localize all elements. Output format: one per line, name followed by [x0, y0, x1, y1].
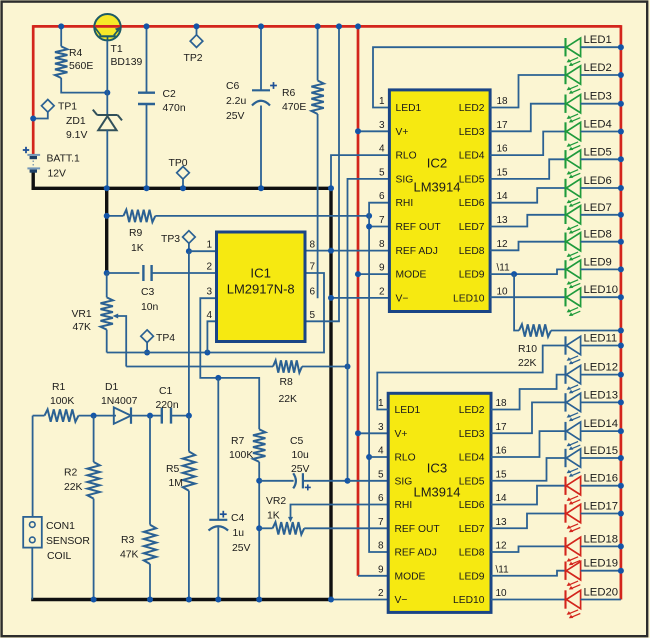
node LED11 bus junction [618, 343, 624, 349]
node LED12 bus junction [618, 372, 624, 378]
node pin8 ground junction [328, 248, 334, 254]
svg-text:REF ADJ: REF ADJ [395, 548, 437, 559]
wire IC2 RLO to ground [331, 155, 389, 188]
svg-text:R10: R10 [518, 344, 537, 355]
node R2 ground junction [91, 597, 97, 603]
svg-text:RHI: RHI [395, 500, 413, 511]
node C6 top junction [258, 23, 264, 29]
svg-text:1N4007: 1N4007 [101, 396, 138, 407]
svg-text:3: 3 [378, 422, 384, 433]
node LED6 bus junction [618, 185, 624, 191]
wire IC3 MODE stub [358, 575, 388, 577]
svg-text:R7: R7 [231, 436, 245, 447]
wire IC3 V+ stub [358, 432, 388, 434]
node ZD1 ground junction [104, 185, 110, 191]
svg-text:LED19: LED19 [584, 558, 619, 570]
node R4-ZD1 junction [104, 90, 110, 96]
svg-text:LED9: LED9 [584, 256, 612, 268]
resistor R10 [514, 274, 621, 337]
svg-text:MODE: MODE [395, 571, 426, 582]
resistor R8 [126, 360, 347, 372]
svg-text:LED8: LED8 [459, 246, 485, 257]
resistor R5 [183, 416, 195, 600]
svg-text:LED2: LED2 [584, 62, 612, 74]
svg-text:7: 7 [310, 262, 316, 273]
svg-text:LED13: LED13 [584, 389, 619, 401]
svg-text:IC3: IC3 [427, 461, 448, 476]
node LED3 bus junction [618, 101, 624, 107]
svg-text:LED5: LED5 [459, 174, 485, 185]
node pin5 bus junction [336, 23, 342, 29]
node LED15 bus junction [618, 455, 624, 461]
LED18 [566, 533, 621, 565]
svg-text:LED10: LED10 [453, 595, 485, 606]
svg-text:17: 17 [496, 422, 508, 433]
node IC2 V- junction [328, 295, 334, 301]
svg-text:9: 9 [379, 263, 385, 274]
resistor R1 [45, 409, 79, 421]
svg-text:LED16: LED16 [584, 473, 619, 485]
svg-text:\11: \11 [497, 263, 511, 274]
resistor R4 [55, 26, 106, 92]
svg-text:R1: R1 [52, 382, 66, 393]
svg-text:470E: 470E [282, 102, 306, 113]
node TP4 junction [144, 350, 150, 356]
svg-text:12: 12 [497, 239, 509, 250]
node LED9 bus junction [618, 266, 624, 272]
wire VR1 bottom to IC1 pin7 [107, 273, 324, 353]
svg-text:6: 6 [379, 191, 385, 202]
svg-text:LM3914: LM3914 [414, 180, 461, 195]
svg-text:LED6: LED6 [459, 198, 485, 209]
svg-text:LED6: LED6 [584, 175, 612, 187]
node LED19 bus junction [618, 568, 624, 574]
wire IC1 pin4 [207, 321, 216, 352]
wire IC3 SIG stub [348, 480, 389, 482]
svg-text:25V: 25V [291, 464, 310, 475]
LED5 [566, 146, 621, 178]
node LED4 bus junction [618, 129, 624, 135]
testpoint TP1 [34, 100, 54, 119]
svg-text:BD139: BD139 [111, 57, 143, 68]
svg-text:LED10: LED10 [453, 293, 485, 304]
svg-text:18: 18 [497, 96, 509, 107]
svg-text:22K: 22K [518, 358, 537, 369]
svg-text:LED8: LED8 [459, 548, 485, 559]
svg-text:100K: 100K [50, 396, 74, 407]
svg-text:REF OUT: REF OUT [395, 524, 441, 535]
svg-text:MODE: MODE [396, 270, 427, 281]
svg-text:LED7: LED7 [459, 524, 485, 535]
svg-text:R9: R9 [129, 228, 143, 239]
node ground corner junction [328, 185, 334, 191]
LED1 [566, 34, 621, 66]
svg-text:V+: V+ [396, 127, 409, 138]
svg-text:LED4: LED4 [459, 453, 485, 464]
resistor R6 [311, 26, 323, 298]
node LED9 R10 junction [511, 271, 517, 277]
node TP0 junction [180, 185, 186, 191]
wire IC1 pin3 to R7 [200, 298, 259, 429]
testpoint TP2 [190, 26, 203, 47]
svg-text:1K: 1K [131, 243, 144, 254]
svg-text:LED9: LED9 [459, 270, 485, 281]
svg-text:VR1: VR1 [72, 309, 92, 320]
svg-text:C6: C6 [226, 81, 240, 92]
LED11 [566, 333, 621, 365]
svg-text:R6: R6 [282, 88, 296, 99]
svg-text:D1: D1 [105, 382, 119, 393]
IC U2 LM3914 [389, 90, 490, 312]
node R2 junction [91, 413, 97, 419]
svg-text:25V: 25V [232, 543, 251, 554]
wire IC2 V- stub [331, 297, 389, 299]
svg-text:10: 10 [497, 286, 509, 297]
svg-text:220n: 220n [156, 400, 179, 411]
wire D1 to C1 [131, 415, 162, 417]
svg-text:LED7: LED7 [459, 222, 485, 233]
node LED18 bus junction [618, 543, 624, 549]
wire IC3 pin1 to LED11 [377, 346, 565, 410]
svg-text:9.1V: 9.1V [66, 130, 87, 141]
svg-text:1: 1 [206, 240, 212, 251]
svg-text:SIG: SIG [395, 476, 413, 487]
wire sensor line [33, 415, 45, 417]
svg-text:REF OUT: REF OUT [396, 222, 442, 233]
svg-text:COIL: COIL [47, 551, 71, 562]
node LED16 bus junction [618, 483, 624, 489]
node LED2 bus junction [618, 72, 624, 78]
node LED14 bus junction [618, 428, 624, 434]
node R7 ground junction [256, 597, 262, 603]
node IC2 V+ junction [355, 128, 361, 134]
node REF OUT junction [366, 224, 372, 230]
svg-text:LED3: LED3 [459, 127, 485, 138]
LED12 [566, 362, 621, 394]
svg-text:12V: 12V [48, 169, 67, 180]
capacitor C4 [209, 378, 229, 600]
node TP2 junction [194, 23, 200, 29]
wire IC2 SIG down to IC3 SIG [348, 179, 390, 481]
capacitor C5 [259, 473, 347, 490]
wire left to CON1 [32, 416, 34, 517]
svg-text:RLO: RLO [395, 453, 416, 464]
svg-text:5: 5 [310, 310, 316, 321]
LED16 [566, 473, 621, 505]
svg-text:5: 5 [378, 469, 384, 480]
svg-text:10: 10 [496, 588, 508, 599]
svg-text:LED1: LED1 [396, 103, 422, 114]
svg-text:RHI: RHI [396, 198, 414, 209]
testpoint TP3 [183, 231, 196, 252]
svg-text:1M: 1M [169, 478, 183, 489]
svg-text:R5: R5 [166, 464, 180, 475]
LED8 [566, 229, 621, 261]
wire +12V mid vertical to V+/MODE [357, 26, 360, 575]
svg-text:C1: C1 [159, 386, 173, 397]
battery BATT.1 [23, 147, 40, 171]
wiper VR1 [113, 314, 127, 367]
svg-text:C2: C2 [163, 89, 177, 100]
svg-text:LED3: LED3 [584, 91, 612, 103]
capacitor C6 [252, 26, 277, 188]
svg-text:6: 6 [378, 493, 384, 504]
LED2 [566, 62, 621, 94]
svg-text:15: 15 [496, 469, 508, 480]
svg-text:4: 4 [206, 310, 212, 321]
svg-text:BATT.1: BATT.1 [47, 154, 81, 165]
svg-text:17: 17 [497, 120, 509, 131]
connector CON1 [23, 517, 42, 548]
wire IC1 pin1 [189, 250, 217, 252]
svg-text:C5: C5 [290, 436, 304, 447]
svg-text:47K: 47K [73, 322, 92, 333]
node C2 ground junction [144, 185, 150, 191]
wire ground from battery [33, 171, 331, 600]
svg-text:LED20: LED20 [584, 587, 619, 599]
wires IC2 outputs to LEDs [490, 75, 565, 297]
node TP3 junction [186, 248, 192, 254]
capacitor C2 [138, 26, 155, 188]
wire C1 to node [171, 415, 189, 417]
svg-text:10u: 10u [292, 450, 310, 461]
capacitor C1 [161, 408, 163, 424]
LED19 [566, 558, 621, 590]
svg-text:LM3914: LM3914 [414, 485, 461, 500]
svg-text:LED3: LED3 [459, 429, 485, 440]
svg-text:1: 1 [378, 398, 384, 409]
node pin4 junction [204, 350, 210, 356]
node C1 right junction [186, 413, 192, 419]
svg-text:LED6: LED6 [459, 500, 485, 511]
svg-text:LED5: LED5 [584, 146, 612, 158]
svg-text:2: 2 [379, 286, 385, 297]
svg-text:22K: 22K [279, 394, 298, 405]
svg-text:560E: 560E [69, 61, 93, 72]
svg-text:LED15: LED15 [584, 445, 619, 457]
resistor R7 [253, 429, 265, 599]
svg-text:LED1: LED1 [584, 34, 612, 46]
svg-text:IC1: IC1 [250, 266, 271, 281]
svg-text:2: 2 [206, 262, 212, 273]
node IC3 RLO junction [366, 454, 372, 460]
svg-text:CON1: CON1 [46, 521, 75, 532]
svg-text:C3: C3 [141, 287, 155, 298]
node LED10 bus junction [618, 294, 624, 300]
svg-text:\11: \11 [496, 564, 510, 575]
node R7 VR2 junction [256, 525, 262, 531]
svg-text:22K: 22K [64, 482, 83, 493]
svg-text:C4: C4 [231, 513, 245, 524]
svg-text:16: 16 [497, 144, 509, 155]
svg-text:SENSOR: SENSOR [46, 536, 90, 547]
svg-text:4: 4 [378, 446, 384, 457]
wires IC3 outputs to LEDs [491, 375, 566, 600]
svg-text:V−: V− [396, 293, 409, 304]
node R3 ground junction [147, 597, 153, 603]
svg-text:10n: 10n [141, 302, 159, 313]
svg-text:9: 9 [378, 564, 384, 575]
svg-text:LED2: LED2 [459, 405, 485, 416]
svg-text:TP4: TP4 [156, 333, 175, 344]
wire R1 to D1 [79, 415, 117, 417]
svg-text:100K: 100K [229, 450, 253, 461]
wire IC1 pin5 to bus [305, 26, 339, 321]
svg-text:R2: R2 [64, 468, 78, 479]
LED13 [566, 389, 621, 421]
svg-text:VR2: VR2 [266, 496, 286, 507]
svg-text:8: 8 [310, 240, 316, 251]
wiper VR2 [288, 505, 388, 523]
wire ZD1 anode to ground [106, 130, 108, 188]
svg-text:SIG: SIG [396, 174, 414, 185]
wire ground bottom rail [31, 598, 331, 601]
pin labels IC3 [378, 398, 509, 606]
svg-text:LED7: LED7 [584, 202, 612, 214]
potentiometer VR1 [101, 273, 113, 353]
node R9 right junction [366, 213, 372, 219]
svg-text:1u: 1u [233, 528, 245, 539]
resistor R2 [87, 416, 99, 600]
wire T1 base to ZD1 [106, 40, 108, 114]
node bus branch junction [355, 23, 361, 29]
node LED7 bus junction [618, 212, 624, 218]
svg-text:25V: 25V [226, 111, 245, 122]
svg-text:12: 12 [496, 541, 508, 552]
node C4 top junction [215, 375, 221, 381]
svg-text:LED11: LED11 [584, 333, 618, 345]
node R9 left junction [104, 213, 110, 219]
svg-text:LED4: LED4 [584, 119, 612, 131]
pin labels IC2 [379, 96, 510, 304]
svg-text:4: 4 [379, 144, 385, 155]
svg-text:LED17: LED17 [584, 501, 619, 513]
svg-text:47K: 47K [120, 550, 139, 561]
svg-text:LED1: LED1 [395, 405, 421, 416]
svg-text:8: 8 [379, 239, 385, 250]
node C4 ground junction [215, 597, 221, 603]
svg-text:LED8: LED8 [584, 229, 612, 241]
svg-text:15: 15 [497, 167, 509, 178]
svg-text:TP2: TP2 [184, 53, 203, 64]
wire IC2 REF OUT stub [369, 226, 389, 228]
LED15 [566, 445, 621, 477]
svg-text:RLO: RLO [396, 151, 417, 162]
svg-text:18: 18 [496, 398, 508, 409]
svg-text:13: 13 [497, 215, 509, 226]
wire black branch to C3/VR1 node [105, 188, 108, 273]
svg-text:LED10: LED10 [584, 284, 619, 296]
resistor R3 [144, 416, 156, 600]
resistor R9 [107, 210, 369, 222]
wire IC1 pin8 to IC2 REF ADJ [305, 250, 389, 252]
wire CON1 to ground [31, 548, 33, 600]
capacitor C3 [107, 265, 217, 281]
node R6 top junction [315, 23, 321, 29]
svg-text:6: 6 [310, 287, 316, 298]
svg-text:ZD1: ZD1 [66, 116, 86, 127]
svg-text:7: 7 [378, 517, 384, 528]
svg-text:1K: 1K [267, 511, 280, 522]
node R10 bus junction [618, 328, 624, 334]
node TP1 junction [30, 116, 36, 122]
wire IC2 MODE stub [358, 273, 389, 275]
node LED1 bus junction [618, 44, 624, 50]
LED14 [566, 418, 621, 450]
svg-text:1: 1 [379, 96, 385, 107]
node C6 ground junction [258, 185, 264, 191]
svg-text:7: 7 [379, 215, 385, 226]
diode D1 [114, 407, 131, 423]
node R7 C5 junction [256, 478, 262, 484]
svg-text:T1: T1 [111, 44, 123, 55]
testpoint TP4 [141, 330, 154, 353]
svg-text:3: 3 [379, 120, 385, 131]
svg-text:IC2: IC2 [427, 156, 448, 171]
svg-text:LED4: LED4 [459, 151, 485, 162]
op-amp IC1 [217, 232, 306, 342]
svg-text:LED14: LED14 [584, 418, 619, 430]
svg-text:LED5: LED5 [459, 476, 485, 487]
IC U3 LM3914 [388, 393, 491, 612]
svg-text:LM2917N-8: LM2917N-8 [227, 282, 295, 297]
svg-text:LED12: LED12 [584, 362, 619, 374]
node LED8 bus junction [618, 239, 624, 245]
node C2 top junction [144, 23, 150, 29]
svg-text:R4: R4 [69, 48, 83, 59]
svg-text:14: 14 [496, 493, 508, 504]
LED9 [566, 256, 621, 288]
node R5 ground junction [186, 597, 192, 603]
svg-text:R8: R8 [280, 377, 294, 388]
node IC3 V+ junction [355, 430, 361, 436]
node LED17 bus junction [618, 511, 624, 517]
LED20 [566, 587, 621, 619]
svg-text:V+: V+ [395, 429, 408, 440]
LED17 [566, 501, 621, 533]
svg-text:V−: V− [395, 595, 408, 606]
node LED5 bus junction [618, 156, 624, 162]
node C3 left junction [104, 270, 110, 276]
testpoint TP0 [177, 167, 190, 189]
wire IC2 pin1 to LED1 [373, 47, 566, 107]
svg-text:2: 2 [378, 588, 384, 599]
node SIG C5 junction [345, 478, 351, 484]
svg-text:5: 5 [379, 167, 385, 178]
transistor T1 [94, 14, 121, 40]
LED4 [566, 119, 621, 151]
svg-text:8: 8 [378, 541, 384, 552]
svg-text:470n: 470n [163, 103, 186, 114]
LED10 [566, 284, 621, 316]
svg-text:13: 13 [496, 517, 508, 528]
svg-text:TP0: TP0 [169, 158, 188, 169]
zener diode ZD1 [93, 110, 122, 131]
node R4-top junction [58, 23, 64, 29]
wire IC3 RLO stub [369, 456, 388, 458]
svg-text:TP3: TP3 [161, 234, 180, 245]
wire TP3 down to C1 node [188, 251, 190, 415]
node R3 junction [147, 413, 153, 419]
LED7 [566, 202, 621, 234]
potentiometer VR2 [259, 522, 388, 534]
svg-text:LED18: LED18 [584, 533, 619, 545]
LED6 [566, 175, 621, 207]
wire IC2 RHI down cascade [369, 203, 389, 552]
svg-text:TP1: TP1 [58, 102, 77, 113]
pin numbers IC1 right [310, 240, 316, 321]
wire IC3 V- stub [331, 599, 388, 601]
